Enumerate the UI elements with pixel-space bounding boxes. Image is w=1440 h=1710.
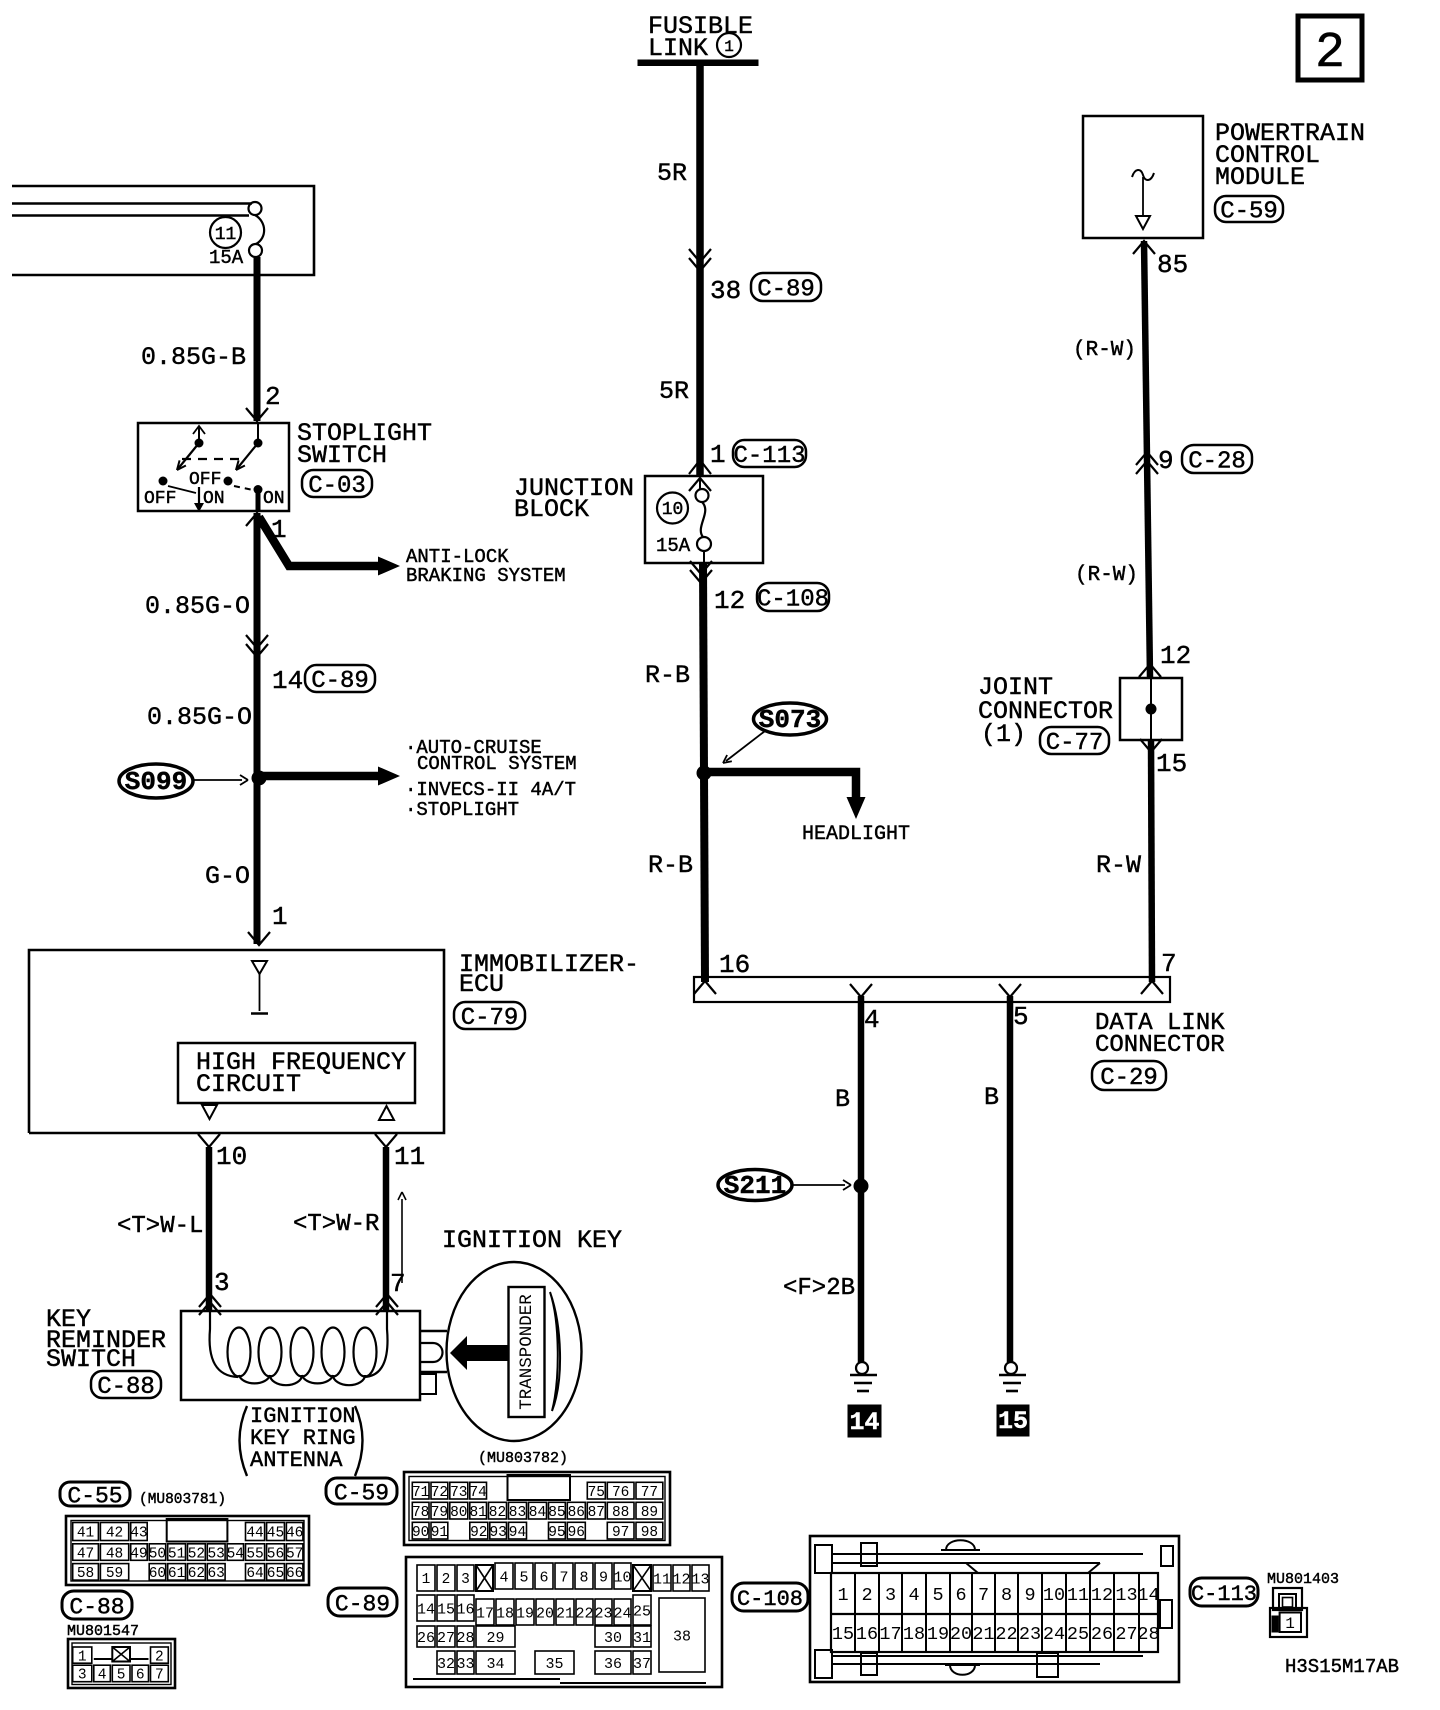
pin 85 bbox=[1133, 241, 1188, 280]
label IGNITION KEY bbox=[442, 1226, 622, 1255]
svg-text:84: 84 bbox=[529, 1505, 546, 1521]
svg-text:22: 22 bbox=[575, 1605, 593, 1622]
svg-text:24: 24 bbox=[613, 1605, 631, 1622]
wire (R-W) upper bbox=[1073, 241, 1150, 677]
svg-text:23: 23 bbox=[1019, 1624, 1041, 1645]
svg-text:ECU: ECU bbox=[459, 970, 504, 999]
page number 2 bbox=[1298, 16, 1362, 82]
svg-text:2: 2 bbox=[1315, 25, 1345, 82]
svg-text:12: 12 bbox=[1160, 641, 1191, 671]
svg-text:12: 12 bbox=[1091, 1585, 1113, 1606]
svg-text:10: 10 bbox=[613, 1569, 631, 1586]
svg-text:72: 72 bbox=[431, 1485, 448, 1501]
svg-text:20: 20 bbox=[950, 1624, 972, 1645]
pin 7 data link connector bbox=[1161, 949, 1177, 979]
wire (R-W) lower bbox=[1075, 564, 1138, 587]
branch arrow to anti-lock braking system bbox=[259, 517, 400, 576]
junction block box bbox=[645, 476, 763, 563]
label (MU803781) bbox=[139, 1492, 226, 1508]
svg-text:(R-W): (R-W) bbox=[1073, 339, 1136, 362]
inline connector pin 1 C-113 bbox=[689, 440, 806, 474]
svg-text:B: B bbox=[835, 1085, 850, 1114]
ignition key head bbox=[447, 1262, 582, 1441]
antenna symbol inside immobilizer ECU bbox=[251, 961, 268, 1014]
svg-text:18: 18 bbox=[903, 1624, 925, 1645]
svg-text:77: 77 bbox=[641, 1485, 658, 1501]
connector label C-03 bbox=[302, 470, 372, 500]
pins 3 and 7 key reminder switch bbox=[199, 1268, 406, 1315]
svg-text:1: 1 bbox=[1285, 1615, 1295, 1633]
svg-text:15: 15 bbox=[1156, 749, 1187, 779]
svg-text:12: 12 bbox=[714, 586, 745, 616]
svg-text:74: 74 bbox=[469, 1485, 486, 1501]
svg-text:15: 15 bbox=[998, 1407, 1028, 1436]
svg-text:1: 1 bbox=[272, 902, 288, 932]
svg-text:S211: S211 bbox=[724, 1171, 786, 1201]
svg-text:21: 21 bbox=[972, 1624, 994, 1645]
svg-text:73: 73 bbox=[450, 1485, 467, 1501]
svg-text:C-89: C-89 bbox=[757, 277, 815, 304]
svg-text:91: 91 bbox=[431, 1525, 448, 1541]
svg-text:89: 89 bbox=[641, 1505, 658, 1521]
svg-text:53: 53 bbox=[207, 1546, 224, 1562]
svg-text:C-108: C-108 bbox=[737, 1587, 803, 1612]
svg-text:87: 87 bbox=[588, 1505, 605, 1521]
svg-text:10: 10 bbox=[662, 500, 684, 520]
label MU801403 bbox=[1267, 1571, 1339, 1588]
svg-text:CONTROL SYSTEM: CONTROL SYSTEM bbox=[417, 753, 577, 775]
svg-text:16: 16 bbox=[719, 950, 750, 980]
svg-text:C-88: C-88 bbox=[97, 1374, 155, 1401]
svg-text:C-108: C-108 bbox=[757, 587, 829, 614]
connector view C-55 bbox=[66, 1516, 309, 1585]
svg-text:44: 44 bbox=[246, 1526, 263, 1542]
wire 0.85G-B bbox=[141, 257, 257, 421]
svg-text:66: 66 bbox=[286, 1566, 303, 1582]
svg-text:94: 94 bbox=[509, 1525, 526, 1541]
pin triangles under high frequency circuit bbox=[202, 1105, 394, 1120]
svg-text:14: 14 bbox=[849, 1408, 879, 1437]
key socket bbox=[420, 1331, 447, 1394]
connector label C-89 bottom bbox=[328, 1588, 397, 1617]
connector view C-108 bbox=[810, 1536, 1179, 1682]
svg-text:21: 21 bbox=[556, 1605, 574, 1622]
svg-text:R-B: R-B bbox=[645, 661, 690, 690]
junction dot S073 bbox=[697, 766, 712, 781]
svg-text:9: 9 bbox=[1158, 446, 1174, 476]
svg-text:43: 43 bbox=[130, 1526, 147, 1542]
svg-text:12: 12 bbox=[672, 1571, 690, 1588]
svg-text:82: 82 bbox=[489, 1505, 506, 1521]
wire (F)2B bbox=[783, 1275, 855, 1302]
pin 5 bbox=[1013, 1002, 1029, 1032]
svg-text:4: 4 bbox=[864, 1005, 880, 1035]
svg-text:34: 34 bbox=[486, 1656, 504, 1673]
svg-text:83: 83 bbox=[509, 1505, 526, 1521]
connector label C-108 bbox=[732, 1583, 808, 1612]
svg-text:28: 28 bbox=[1137, 1624, 1159, 1645]
svg-text:3: 3 bbox=[885, 1585, 896, 1606]
svg-text:23: 23 bbox=[594, 1605, 612, 1622]
svg-text:7: 7 bbox=[978, 1585, 989, 1606]
svg-text:14: 14 bbox=[272, 666, 303, 696]
svg-text:29: 29 bbox=[486, 1630, 504, 1647]
svg-text:5: 5 bbox=[1013, 1002, 1029, 1032]
svg-text:SWITCH: SWITCH bbox=[46, 1345, 136, 1374]
svg-text:19: 19 bbox=[927, 1624, 949, 1645]
svg-text:35: 35 bbox=[545, 1656, 563, 1673]
svg-text:B: B bbox=[984, 1083, 999, 1112]
svg-text:15: 15 bbox=[437, 1601, 455, 1618]
branch arrow to headlight bbox=[704, 772, 866, 819]
svg-text:20: 20 bbox=[536, 1605, 554, 1622]
connector label C-59 bottom bbox=[326, 1478, 397, 1506]
pin 15 joint connector bbox=[1140, 739, 1187, 779]
svg-text:C-113: C-113 bbox=[1191, 1582, 1257, 1607]
svg-text:14: 14 bbox=[1137, 1585, 1159, 1606]
wire G-O bbox=[205, 862, 250, 891]
svg-text:15A: 15A bbox=[656, 535, 691, 557]
svg-text:R-B: R-B bbox=[648, 851, 693, 880]
high frequency circuit box bbox=[178, 1043, 415, 1103]
inline connector pin 14 C-89 bbox=[246, 635, 375, 696]
label (IGNITION KEY RING ANTENNA) bbox=[240, 1404, 363, 1476]
svg-text:15: 15 bbox=[832, 1624, 854, 1645]
wire 0.85G-O lower bbox=[147, 703, 252, 732]
svg-text:16: 16 bbox=[856, 1624, 878, 1645]
svg-text:71: 71 bbox=[412, 1485, 429, 1501]
label IMMOBILIZER-ECU bbox=[459, 950, 639, 999]
svg-text:17: 17 bbox=[879, 1624, 901, 1645]
connector label C-59 bbox=[1215, 196, 1283, 226]
connector label C-113 bottom bbox=[1190, 1578, 1258, 1607]
wire (T)W-R bbox=[293, 1147, 386, 1311]
connector label C-29 bbox=[1092, 1061, 1166, 1092]
fuse box (junction block upper left) bbox=[12, 186, 314, 275]
svg-text:88: 88 bbox=[612, 1505, 629, 1521]
svg-text:30: 30 bbox=[604, 1630, 622, 1647]
svg-text:ON: ON bbox=[203, 489, 225, 509]
svg-text:11: 11 bbox=[394, 1142, 425, 1172]
svg-text:·STOPLIGHT: ·STOPLIGHT bbox=[405, 799, 519, 821]
svg-text:78: 78 bbox=[412, 1505, 429, 1521]
svg-text:25: 25 bbox=[1067, 1624, 1089, 1645]
svg-text:C-59: C-59 bbox=[1220, 199, 1278, 226]
label POWERTRAIN CONTROL MODULE bbox=[1215, 119, 1365, 192]
svg-text:24: 24 bbox=[1043, 1624, 1065, 1645]
pin 2 stoplight switch bbox=[265, 382, 281, 412]
svg-text:9: 9 bbox=[599, 1569, 608, 1586]
svg-text:CIRCUIT: CIRCUIT bbox=[196, 1070, 301, 1099]
wire 5R lower bbox=[659, 377, 689, 406]
svg-text:5R: 5R bbox=[659, 377, 689, 406]
inline connector pin 12 C-108 bbox=[690, 561, 829, 616]
svg-text:64: 64 bbox=[246, 1566, 263, 1582]
connector label C-88 bottom bbox=[62, 1591, 132, 1620]
connector label C-88 bbox=[91, 1371, 161, 1401]
stoplight switch C-03 bbox=[138, 423, 289, 512]
svg-text:R-W: R-W bbox=[1096, 851, 1141, 880]
label MU801547 bbox=[67, 1623, 139, 1640]
svg-text:7: 7 bbox=[1161, 949, 1177, 979]
svg-text:80: 80 bbox=[450, 1505, 467, 1521]
svg-text:0.85G-O: 0.85G-O bbox=[147, 703, 252, 732]
svg-text:45: 45 bbox=[267, 1526, 284, 1542]
svg-text:93: 93 bbox=[489, 1525, 506, 1541]
inline connector pin 9 C-28 bbox=[1136, 445, 1252, 476]
wire B left bbox=[835, 996, 861, 1362]
connector view C-59 bbox=[404, 1472, 670, 1545]
fusible link 1 bbox=[638, 12, 758, 66]
svg-text:BRAKING SYSTEM: BRAKING SYSTEM bbox=[406, 565, 566, 587]
svg-text:S073: S073 bbox=[759, 705, 821, 735]
wire R-W bbox=[1096, 740, 1152, 982]
svg-text:17: 17 bbox=[476, 1605, 494, 1622]
svg-text:75: 75 bbox=[588, 1485, 605, 1501]
svg-text:86: 86 bbox=[568, 1505, 585, 1521]
svg-text:C-89: C-89 bbox=[335, 1591, 390, 1617]
svg-text:28: 28 bbox=[456, 1630, 474, 1647]
svg-text:ON: ON bbox=[263, 489, 285, 509]
svg-text:13: 13 bbox=[1115, 1585, 1137, 1606]
pin 12 joint connector bbox=[1139, 641, 1191, 677]
svg-text:31: 31 bbox=[633, 1630, 651, 1647]
wire R-B lower bbox=[648, 851, 693, 880]
svg-text:98: 98 bbox=[641, 1525, 658, 1541]
label (MU803782) bbox=[478, 1450, 568, 1467]
svg-text:C-77: C-77 bbox=[1046, 730, 1104, 757]
label JUNCTION BLOCK bbox=[514, 474, 634, 524]
svg-text:8: 8 bbox=[1001, 1585, 1012, 1606]
antenna symbol inside PCM bbox=[1132, 170, 1154, 229]
svg-text:19: 19 bbox=[516, 1605, 534, 1622]
pin 4 bbox=[864, 1005, 880, 1035]
svg-text:10: 10 bbox=[216, 1142, 247, 1172]
splice S211 bbox=[718, 1170, 851, 1202]
svg-text:49: 49 bbox=[130, 1546, 147, 1562]
svg-text:62: 62 bbox=[188, 1566, 205, 1582]
svg-text:C-113: C-113 bbox=[733, 443, 805, 470]
ground 15 bbox=[997, 1362, 1029, 1436]
pin 1 immobilizer ECU bbox=[248, 902, 288, 945]
svg-text:90: 90 bbox=[412, 1525, 429, 1541]
branch arrow to auto-cruise / invecs / stoplight bbox=[259, 767, 400, 786]
svg-text:37: 37 bbox=[633, 1656, 651, 1673]
svg-text:22: 22 bbox=[995, 1624, 1017, 1645]
svg-text:H3S15M17AB: H3S15M17AB bbox=[1285, 1656, 1399, 1678]
junction dot S099 bbox=[252, 771, 267, 786]
svg-text:3: 3 bbox=[461, 1572, 470, 1588]
svg-text:2: 2 bbox=[442, 1572, 451, 1588]
junction dot S211 bbox=[854, 1179, 869, 1194]
label H3S15M17AB bbox=[1285, 1656, 1399, 1678]
svg-text:13: 13 bbox=[691, 1571, 709, 1588]
svg-text:4: 4 bbox=[908, 1585, 919, 1606]
svg-text:6: 6 bbox=[539, 1569, 548, 1586]
pins 10 and 11 bbox=[198, 1134, 425, 1172]
joint connector (1) C-77 bbox=[1120, 678, 1182, 740]
splice S099 bbox=[119, 764, 248, 798]
svg-text:27: 27 bbox=[1115, 1624, 1137, 1645]
svg-text:4: 4 bbox=[98, 1668, 107, 1684]
svg-text:81: 81 bbox=[469, 1505, 486, 1521]
svg-text:S099: S099 bbox=[125, 767, 187, 797]
wire 0.85G-O bbox=[145, 513, 257, 944]
svg-text:65: 65 bbox=[267, 1566, 284, 1582]
svg-text:15A: 15A bbox=[209, 247, 244, 269]
connector chevron at stoplight switch bbox=[246, 408, 268, 421]
svg-text:<T>W-L: <T>W-L bbox=[117, 1213, 203, 1240]
svg-text:32: 32 bbox=[437, 1656, 455, 1673]
svg-text:0.85G-B: 0.85G-B bbox=[141, 343, 246, 372]
svg-text:MODULE: MODULE bbox=[1215, 163, 1305, 192]
svg-text:5: 5 bbox=[519, 1569, 528, 1586]
key reminder switch C-88 box bbox=[181, 1311, 420, 1400]
svg-text:42: 42 bbox=[106, 1526, 123, 1542]
svg-text:4: 4 bbox=[499, 1569, 508, 1586]
svg-text:57: 57 bbox=[286, 1546, 303, 1562]
label ANTI-LOCK BRAKING SYSTEM bbox=[406, 546, 566, 587]
svg-text:ANTENNA: ANTENNA bbox=[250, 1448, 343, 1473]
svg-text:58: 58 bbox=[77, 1566, 94, 1582]
svg-text:0.85G-O: 0.85G-O bbox=[145, 592, 250, 621]
svg-text:33: 33 bbox=[456, 1656, 474, 1673]
svg-text:2: 2 bbox=[155, 1649, 164, 1665]
svg-text:6: 6 bbox=[136, 1668, 145, 1684]
svg-text:C-55: C-55 bbox=[67, 1483, 122, 1509]
connector label C-55 bbox=[60, 1482, 130, 1509]
connector view C-89 bbox=[406, 1557, 722, 1687]
svg-text:7: 7 bbox=[155, 1668, 164, 1684]
svg-text:C-89: C-89 bbox=[311, 668, 369, 695]
svg-text:61: 61 bbox=[168, 1566, 185, 1582]
svg-text:11: 11 bbox=[215, 225, 237, 245]
connector label C-77 bbox=[1040, 727, 1109, 757]
svg-text:1: 1 bbox=[837, 1585, 848, 1606]
splice S073 bbox=[723, 703, 827, 763]
connector view C-113 bbox=[1270, 1588, 1307, 1637]
data link connector box C-29 bbox=[694, 977, 1170, 1002]
svg-text:1: 1 bbox=[710, 440, 726, 470]
svg-text:92: 92 bbox=[470, 1525, 487, 1541]
svg-text:79: 79 bbox=[431, 1505, 448, 1521]
svg-text:(1): (1) bbox=[981, 720, 1026, 749]
svg-text:56: 56 bbox=[267, 1546, 284, 1562]
label JOINT CONNECTOR (1) bbox=[978, 673, 1113, 749]
svg-text:9: 9 bbox=[1024, 1585, 1035, 1606]
inline connector pin 38 C-89 bbox=[689, 249, 821, 306]
connector view C-88 bbox=[68, 1639, 175, 1688]
wire (T)W-L bbox=[117, 1147, 209, 1311]
svg-text:5: 5 bbox=[117, 1668, 126, 1684]
svg-text:50: 50 bbox=[149, 1546, 166, 1562]
svg-text:11: 11 bbox=[1067, 1585, 1089, 1606]
label AUTO-CRUISE CONTROL SYSTEM / INVECS-II 4A/T / STOPLIGHT bbox=[405, 737, 577, 821]
svg-text:85: 85 bbox=[1157, 250, 1188, 280]
svg-text:26: 26 bbox=[1091, 1624, 1113, 1645]
svg-text:1: 1 bbox=[78, 1649, 87, 1665]
svg-text:46: 46 bbox=[286, 1526, 303, 1542]
svg-text:51: 51 bbox=[168, 1546, 185, 1562]
svg-text:HEADLIGHT: HEADLIGHT bbox=[802, 823, 910, 846]
svg-text:IGNITION KEY: IGNITION KEY bbox=[442, 1226, 622, 1255]
svg-text:C-79: C-79 bbox=[461, 1005, 519, 1032]
svg-text:36: 36 bbox=[604, 1656, 622, 1673]
svg-text:95: 95 bbox=[548, 1525, 565, 1541]
svg-text:1: 1 bbox=[724, 38, 734, 56]
svg-text:97: 97 bbox=[612, 1525, 629, 1541]
svg-text:C-29: C-29 bbox=[1100, 1065, 1158, 1092]
svg-text:SWITCH: SWITCH bbox=[297, 441, 387, 470]
ground 14 bbox=[848, 1362, 881, 1437]
svg-text:MU801403: MU801403 bbox=[1267, 1571, 1339, 1588]
svg-text:27: 27 bbox=[437, 1630, 455, 1647]
fuse 11 15A bbox=[209, 202, 264, 269]
svg-text:5R: 5R bbox=[657, 159, 687, 188]
svg-text:<F>2B: <F>2B bbox=[783, 1275, 855, 1302]
svg-text:6: 6 bbox=[955, 1585, 966, 1606]
pin 16 data link connector bbox=[719, 950, 750, 980]
svg-text:MU801547: MU801547 bbox=[67, 1623, 139, 1640]
svg-text:10: 10 bbox=[1043, 1585, 1065, 1606]
powertrain control module box bbox=[1083, 116, 1203, 238]
svg-text:8: 8 bbox=[579, 1569, 588, 1586]
label DATA LINK CONNECTOR bbox=[1095, 1010, 1225, 1059]
svg-text:63: 63 bbox=[207, 1566, 224, 1582]
svg-text:(R-W): (R-W) bbox=[1075, 564, 1138, 587]
svg-text:38: 38 bbox=[710, 276, 741, 306]
svg-text:(MU803782): (MU803782) bbox=[478, 1450, 568, 1467]
svg-text:47: 47 bbox=[77, 1546, 94, 1562]
svg-text:<T>W-R: <T>W-R bbox=[293, 1211, 379, 1238]
svg-text:OFF: OFF bbox=[144, 489, 176, 509]
data link connector entry chevrons bbox=[694, 981, 1163, 997]
svg-text:CONNECTOR: CONNECTOR bbox=[1095, 1032, 1225, 1059]
svg-text:96: 96 bbox=[568, 1525, 585, 1541]
svg-text:C-88: C-88 bbox=[69, 1594, 124, 1620]
svg-text:2: 2 bbox=[861, 1585, 872, 1606]
svg-text:5: 5 bbox=[932, 1585, 943, 1606]
thin arrow beside W-R wire bbox=[398, 1192, 406, 1283]
svg-text:38: 38 bbox=[673, 1628, 691, 1645]
svg-text:76: 76 bbox=[612, 1485, 629, 1501]
svg-text:25: 25 bbox=[633, 1603, 651, 1620]
svg-text:48: 48 bbox=[106, 1546, 123, 1562]
svg-text:85: 85 bbox=[548, 1505, 565, 1521]
svg-text:26: 26 bbox=[417, 1630, 435, 1647]
svg-text:18: 18 bbox=[496, 1605, 514, 1622]
arrow from transponder to antenna bbox=[450, 1336, 509, 1370]
connector label C-79 bbox=[454, 1002, 525, 1032]
svg-text:OFF: OFF bbox=[189, 470, 221, 490]
svg-text:·INVECS-II 4A/T: ·INVECS-II 4A/T bbox=[405, 779, 576, 801]
wire B right bbox=[984, 996, 1010, 1362]
svg-text:41: 41 bbox=[77, 1526, 94, 1542]
svg-text:1: 1 bbox=[422, 1572, 431, 1588]
transponder in ignition key bbox=[509, 1287, 545, 1417]
svg-text:14: 14 bbox=[417, 1601, 435, 1618]
svg-text:7: 7 bbox=[390, 1269, 406, 1299]
wire 5R upper bbox=[657, 63, 700, 475]
svg-text:52: 52 bbox=[188, 1546, 205, 1562]
svg-text:16: 16 bbox=[456, 1601, 474, 1618]
immobilizer ECU box bbox=[29, 950, 444, 1133]
svg-text:3: 3 bbox=[78, 1668, 87, 1684]
svg-text:G-O: G-O bbox=[205, 862, 250, 891]
label KEY REMINDER SWITCH bbox=[46, 1305, 166, 1374]
svg-text:(MU803781): (MU803781) bbox=[139, 1492, 226, 1508]
coil (ignition key ring antenna) bbox=[210, 1311, 388, 1385]
